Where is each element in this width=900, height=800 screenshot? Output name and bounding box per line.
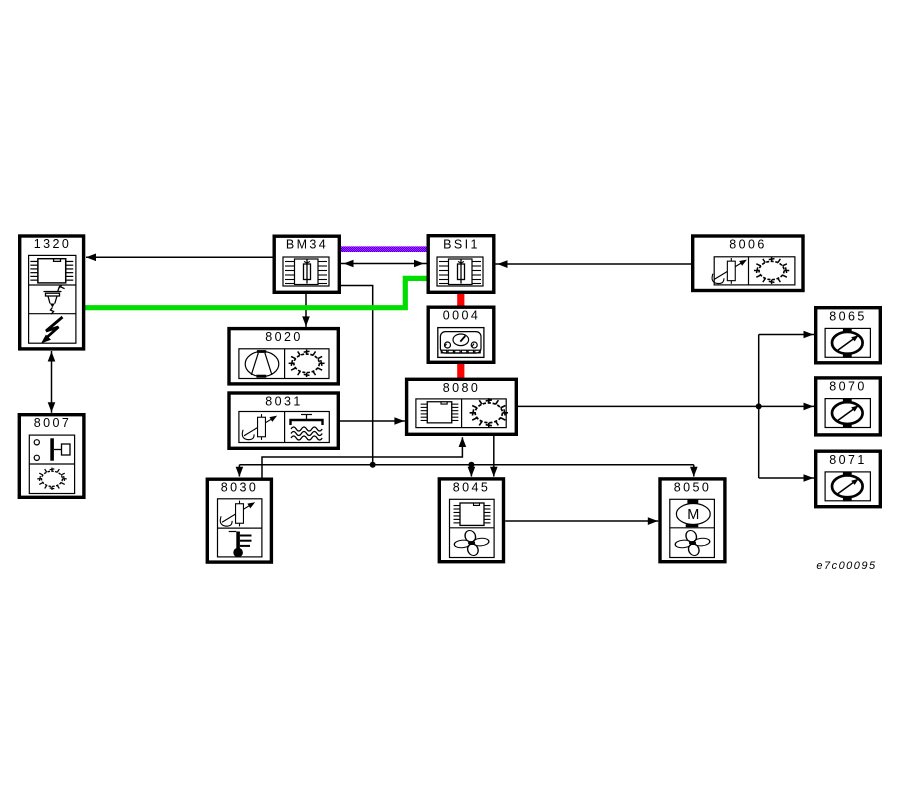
box BSI1 bbox=[428, 236, 494, 293]
box 1320 ECU bbox=[20, 236, 84, 349]
box 0004 bbox=[428, 307, 494, 362]
svg-text:0004: 0004 bbox=[443, 309, 480, 323]
wire 8080 to right trunk bbox=[518, 405, 759, 407]
wire 8031 to 8080 bbox=[340, 417, 405, 425]
branch to 8070 bbox=[759, 403, 814, 411]
box 8031 bbox=[229, 393, 338, 448]
8020 icon: snowflake bbox=[289, 350, 325, 377]
wire BM34 to 1320 bbox=[86, 254, 273, 262]
svg-text:8006: 8006 bbox=[729, 238, 766, 252]
svg-text:e7c00095: e7c00095 bbox=[816, 560, 876, 572]
8030 icon: temp sensor bbox=[220, 501, 255, 527]
svg-text:M: M bbox=[687, 507, 699, 523]
8050 icon: fan bbox=[675, 530, 711, 556]
wire BM34-BSI1 bidirectional bbox=[341, 260, 427, 268]
1320 icon: control unit chip bbox=[30, 259, 73, 283]
wire 8080 to 8045 bbox=[490, 436, 498, 477]
svg-text:8071: 8071 bbox=[829, 453, 866, 467]
svg-text:8065: 8065 bbox=[829, 309, 866, 323]
branch to 8071 bbox=[759, 474, 814, 482]
label 0004 bbox=[443, 309, 480, 323]
box 8007 bbox=[19, 415, 84, 498]
1320 inner frame bbox=[29, 255, 76, 343]
label 8071 bbox=[829, 453, 866, 467]
8007 icon: relay contact bbox=[34, 438, 70, 460]
wire BM34 to bus-B bbox=[341, 286, 373, 465]
bus-A horizontal 8030 to 8080 bbox=[262, 437, 466, 478]
8080 inner frame bbox=[416, 399, 506, 428]
wire 8006 to BSI1 bbox=[496, 260, 692, 268]
svg-text:8045: 8045 bbox=[453, 481, 490, 495]
red wire BSI1 to 0004 bbox=[457, 293, 464, 308]
label 8030 bbox=[221, 481, 258, 495]
box 8045 bbox=[439, 479, 503, 562]
box 8071 bbox=[816, 451, 881, 507]
purple data wire BM34-BSI1 bbox=[341, 246, 427, 252]
8031 inner frame bbox=[239, 412, 329, 443]
8006 icon: snowflake bbox=[754, 257, 789, 284]
label 8007 bbox=[34, 416, 71, 430]
box 8006 bbox=[693, 236, 803, 291]
8071 icon: flap actuator bbox=[825, 472, 870, 502]
8007 inner frame bbox=[29, 435, 74, 493]
bus-B horizontal bbox=[239, 464, 693, 466]
8006 inner frame bbox=[714, 257, 795, 285]
wire 8045 to 8050 bbox=[505, 517, 658, 525]
1320 icon: flash arrow bbox=[41, 317, 63, 344]
BSI1 icon: control unit bbox=[437, 257, 483, 286]
svg-text:BSI1: BSI1 bbox=[443, 238, 480, 252]
green wire 1320 to BSI1 bbox=[85, 278, 427, 307]
box 8050 bbox=[660, 479, 725, 562]
junction dot bus-B at x372.7 bbox=[370, 462, 376, 468]
8050 inner frame bbox=[670, 499, 715, 557]
box 8080 bbox=[407, 379, 517, 434]
8070 icon: flap actuator bbox=[825, 398, 870, 428]
box 8030 bbox=[207, 479, 271, 562]
8031 icon: radiator bbox=[291, 415, 323, 441]
8080 icon: control unit chip bbox=[421, 402, 459, 423]
svg-text:8030: 8030 bbox=[221, 481, 258, 495]
box 8065 bbox=[816, 308, 881, 363]
box 8020 bbox=[229, 329, 338, 384]
branch to 8065 bbox=[759, 331, 814, 339]
8065 icon: flap actuator bbox=[825, 328, 870, 358]
box 8070 bbox=[816, 378, 881, 435]
8007 icon: snowflake bbox=[37, 468, 66, 490]
svg-text:1320: 1320 bbox=[34, 237, 71, 251]
bus-B drop to 8050 bbox=[690, 465, 698, 477]
wire BM34 to 8020 bbox=[302, 294, 310, 327]
bus-B drop to 8030 bbox=[236, 465, 244, 477]
8045 inner frame bbox=[450, 499, 495, 557]
BM34 icon: control unit bbox=[283, 257, 329, 286]
8031 icon: water temp sensor bbox=[242, 414, 277, 440]
0004 icon: instrument panel bbox=[438, 328, 484, 358]
8030 inner frame bbox=[218, 499, 262, 557]
8020 icon: compressor bbox=[245, 350, 279, 378]
8045 icon: fan bbox=[454, 530, 490, 556]
8006 icon: evaporator sensor bbox=[712, 258, 747, 284]
label 8070 bbox=[829, 380, 866, 394]
svg-text:8050: 8050 bbox=[674, 481, 711, 495]
label M bbox=[687, 507, 699, 523]
wire 1320-8007 bidirectional bbox=[48, 351, 56, 413]
label 1320 bbox=[34, 237, 71, 251]
svg-text:8070: 8070 bbox=[829, 380, 866, 394]
8020 inner frame bbox=[239, 349, 329, 379]
label e7c00095 bbox=[816, 560, 876, 572]
label 8065 bbox=[829, 309, 866, 323]
8045 icon: control unit chip bbox=[454, 503, 491, 525]
label 8020 bbox=[265, 330, 302, 344]
8080 icon: snowflake bbox=[470, 398, 508, 427]
svg-text:BM34: BM34 bbox=[286, 238, 328, 252]
8030 icon: thermometer bbox=[229, 532, 252, 558]
label 8006 bbox=[729, 238, 766, 252]
bus-B drop to 8045 bbox=[468, 465, 476, 477]
label 8031 bbox=[265, 395, 302, 409]
1320 icon: injector bbox=[44, 285, 65, 314]
label 8050 bbox=[674, 481, 711, 495]
svg-text:8020: 8020 bbox=[265, 330, 302, 344]
label 8080 bbox=[443, 381, 480, 395]
svg-text:8031: 8031 bbox=[265, 395, 302, 409]
label 8045 bbox=[453, 481, 490, 495]
junction dot bus-B at x471.4 bbox=[468, 462, 474, 468]
label BM34 bbox=[286, 238, 328, 252]
8050 icon: motor bbox=[676, 500, 710, 528]
right trunk vertical bbox=[758, 335, 760, 479]
box BM34 bbox=[274, 236, 339, 292]
drawing number e7c00095 bbox=[0, 0, 1, 1]
label BSI1 bbox=[443, 238, 480, 252]
junction dot right trunk bbox=[756, 403, 762, 409]
svg-text:8080: 8080 bbox=[443, 381, 480, 395]
svg-text:8007: 8007 bbox=[34, 416, 71, 430]
red wire 0004 to 8080 bbox=[457, 363, 464, 380]
